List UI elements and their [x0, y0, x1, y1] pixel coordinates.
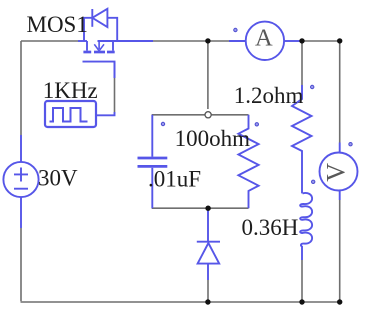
svg-text:100ohm: 100ohm — [175, 126, 251, 151]
svg-text:MOS1: MOS1 — [27, 12, 88, 37]
svg-text:A: A — [255, 25, 273, 52]
svg-text:1.2ohm: 1.2ohm — [234, 83, 304, 108]
svg-text:0.36H: 0.36H — [242, 215, 299, 240]
svg-text:30V: 30V — [38, 166, 78, 191]
svg-text:1KHz: 1KHz — [43, 78, 98, 103]
svg-text:V: V — [321, 163, 350, 182]
svg-text:.01uF: .01uF — [148, 167, 201, 192]
